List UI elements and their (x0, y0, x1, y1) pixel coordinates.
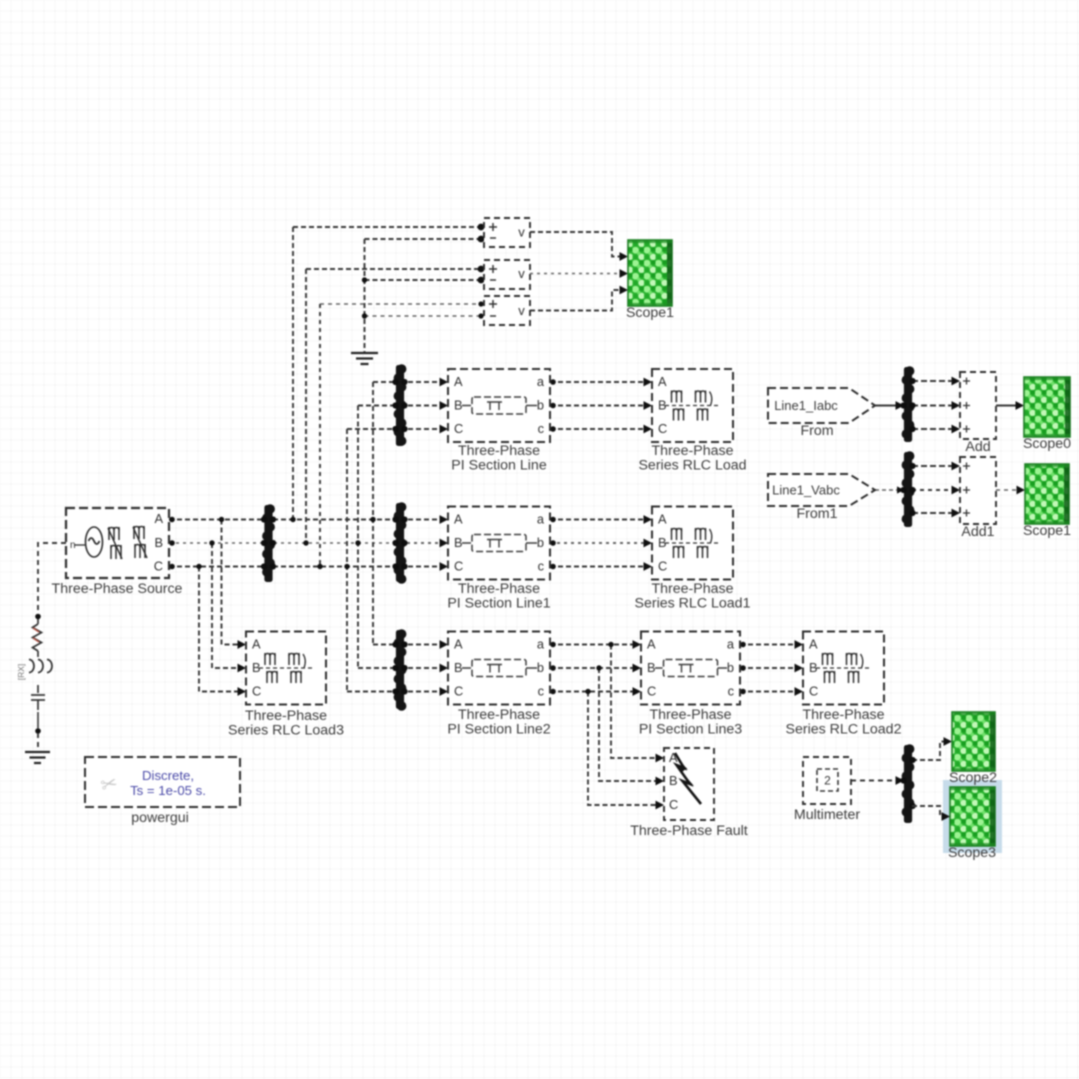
svg-text:v: v (518, 225, 525, 240)
node junction fault C tap (585, 689, 590, 694)
node demux out node a (910, 757, 916, 763)
scope block Scope1 top (628, 240, 672, 306)
multimeter block (803, 757, 851, 804)
wire From to demux (875, 405, 901, 407)
svg-text:A: A (647, 637, 656, 652)
node demux out node b (910, 803, 916, 809)
wire Load3 A drop (222, 520, 245, 645)
node VM2 plus input node (478, 266, 485, 273)
svg-text:B: B (454, 398, 463, 413)
svg-text:a: a (537, 512, 545, 527)
node VM3 minus input node (478, 313, 483, 318)
svg-text:A: A (154, 511, 163, 526)
wire demux to Scope2 (912, 742, 949, 761)
series RLC branch (neutral grounding) (29, 619, 52, 710)
wire row3 PI Section Line2 to Line3 port 1 (550, 667, 638, 669)
svg-text:C: C (154, 559, 163, 574)
wire phase B to VM2 plus (306, 268, 484, 270)
wire row2 bus to PI Section Line1 port 1 (400, 542, 445, 544)
bus B4 (row3) (bus bar) (392, 629, 407, 711)
node row3 PI2 out node 0 (550, 642, 556, 648)
wire fault A drop (611, 645, 661, 759)
wire row3 B feed (358, 667, 400, 669)
node neutral node bottom (35, 728, 41, 734)
node row2 PI out node 0 (550, 517, 556, 523)
node VM1 plus input node (478, 224, 485, 231)
node VM1 minus input node (478, 236, 485, 243)
node junction riser A on phase A (370, 517, 375, 522)
wire row1 A feed (373, 381, 400, 383)
node junction Load3 B tap (209, 540, 214, 545)
wire VM3 output to Scope1 in3 (530, 290, 626, 311)
node junction Load3 C tap (196, 564, 201, 569)
wire phase A line (169, 519, 400, 521)
svg-text:c: c (538, 421, 545, 436)
node row2 PI out node 2 (550, 564, 556, 570)
node junction fault B tap (596, 665, 601, 670)
wire demux to Add in2 (912, 405, 957, 407)
svg-text:B: B (647, 660, 656, 675)
svg-text:PI Section Line3: PI Section Line3 (639, 722, 742, 738)
svg-text:B: B (154, 535, 163, 550)
node junction riser C on phase C (344, 564, 349, 569)
svg-text:b: b (537, 660, 544, 675)
node row3 PI3 out node 2 (740, 689, 746, 695)
svg-text:A: A (454, 512, 463, 527)
voltage measurement U2 (484, 260, 530, 289)
node junction riser B on phase B (355, 540, 360, 545)
scope block Scope2 (952, 712, 995, 771)
wire row3 bus to PI Section Line2 port 2 (400, 691, 445, 693)
wire demux to Scope3 (912, 806, 947, 817)
bus B3 (row2) (bus bar) (392, 502, 407, 584)
svg-text:b: b (727, 660, 734, 675)
svg-text:C: C (454, 684, 463, 699)
scope block Scope3 (943, 780, 1002, 853)
wire VM2 plus vertical tap (305, 269, 307, 543)
wire Add to Scope0 (996, 405, 1021, 407)
svg-text:Discrete,: Discrete, (142, 768, 194, 783)
three-phase series RLC load (652, 369, 733, 442)
svg-text:b: b (537, 535, 544, 550)
wire row1 bus to PI Section Line port 0 (400, 381, 445, 383)
three-phase PI section line2 (448, 632, 550, 705)
wire row3 PI Section Line2 to Line3 port 2 (550, 691, 638, 693)
svg-text:A: A (252, 637, 261, 652)
scope block Scope0 (1024, 377, 1070, 437)
svg-text:A: A (454, 374, 463, 389)
three-phase source icon (74, 526, 147, 559)
node junction Load3 A tap (219, 517, 224, 522)
wire VM1 output to Scope1 in1 (530, 232, 626, 257)
wire row1 bus to PI Section Line port 1 (400, 405, 445, 407)
wire VM3 plus vertical tap (319, 304, 321, 567)
wire demux to Add in1 (912, 380, 957, 382)
node ground net junction at VM3 minus (362, 313, 367, 318)
svg-text:B: B (454, 660, 463, 675)
svg-text:c: c (538, 684, 545, 699)
From tag Line1_Iabc (768, 388, 875, 423)
svg-text:powergui: powergui (131, 810, 189, 826)
svg-text:Scope2: Scope2 (949, 770, 997, 786)
wire row2 PI Section Line1 to RLC Load1 port 1 (550, 542, 649, 544)
wire row2 PI Section Line1 to RLC Load1 port 2 (550, 566, 649, 568)
svg-text:v: v (518, 303, 525, 318)
svg-text:Ts = 1e-05 s.: Ts = 1e-05 s. (130, 783, 206, 798)
svg-text:C: C (658, 421, 667, 436)
wire row3 PI Section Line3 to RLC Load2 port 1 (740, 667, 800, 669)
wire row3 A feed (373, 644, 400, 646)
wire phase C riser x347 (346, 429, 348, 692)
svg-text:[RX]: [RX] (16, 664, 26, 681)
ground (measurement reference) (351, 353, 378, 364)
svg-text:Line1_Vabc: Line1_Vabc (772, 483, 840, 498)
three-phase fault block (664, 748, 714, 820)
svg-text:C: C (809, 684, 818, 699)
svg-text:PI Section Line2: PI Section Line2 (447, 722, 550, 738)
three-phase series RLC load3 (246, 632, 326, 705)
wire phase A riser x373 (372, 382, 374, 645)
scope block Scope1 right (1025, 464, 1069, 524)
svg-text:2: 2 (824, 774, 831, 788)
svg-text:C: C (454, 559, 463, 574)
node junction fault A tap (608, 642, 613, 647)
ground (source neutral) (25, 752, 50, 763)
wire Load3 C drop (199, 567, 244, 692)
svg-text:Three-Phase Source: Three-Phase Source (52, 581, 183, 597)
node source port B node (169, 540, 175, 546)
node row2 PI out node 1 (550, 540, 556, 546)
svg-text:a: a (727, 637, 735, 652)
node row3 PI2 out node 2 (550, 689, 556, 695)
wire VM1 minus wire (365, 238, 485, 240)
svg-text:Series RLC Load1: Series RLC Load1 (635, 596, 751, 612)
wire row1 PI Section Line to RLC Load port 0 (550, 381, 649, 383)
node row3 PI2 out node 1 (550, 665, 556, 671)
svg-text:Add: Add (965, 439, 990, 455)
wire demux1 to Add1 in2 (912, 489, 957, 491)
wire phase C line (169, 566, 400, 568)
svg-text:C: C (454, 421, 463, 436)
bus B1 (bus bar) (261, 504, 276, 582)
three-phase series RLC load2 (803, 632, 884, 705)
svg-text:Scope0: Scope0 (1023, 436, 1071, 452)
svg-text:b: b (537, 398, 544, 413)
node neutral node top (35, 614, 41, 620)
wire source neutral wire (38, 543, 66, 614)
RLC load icon (665, 391, 721, 421)
add1 block (960, 457, 996, 524)
wire demux to Add in3 (912, 428, 957, 430)
wire demux1 to Add1 in1 (912, 465, 957, 467)
node row1 PI out node 1 (550, 403, 556, 409)
svg-text:c: c (538, 559, 545, 574)
powergui block (85, 757, 240, 807)
node ground net junction at VM2 minus (362, 277, 367, 282)
three-phase series RLC load1 (652, 507, 733, 580)
node row3 PI3 out node 0 (740, 642, 746, 648)
svg-text:A: A (658, 374, 667, 389)
wire VM2 minus wire (365, 279, 485, 281)
wire row1 PI Section Line to RLC Load port 1 (550, 405, 649, 407)
svg-text:a: a (537, 637, 545, 652)
wire Load3 B drop (212, 543, 244, 668)
wire phase A to VM1 plus (293, 226, 484, 228)
wire row3 PI Section Line2 to Line3 port 0 (550, 644, 638, 646)
node junction VM1 tap (290, 517, 295, 522)
svg-text:From: From (800, 423, 833, 439)
svg-text:Series RLC Load2: Series RLC Load2 (786, 722, 902, 738)
From tag Line1_Vabc (768, 474, 875, 506)
RLC load icon (259, 653, 314, 683)
svg-text:PI Section Line: PI Section Line (451, 458, 547, 474)
wire phase B line (169, 542, 400, 544)
demux D1 (bus bar) (900, 366, 915, 442)
add block (960, 372, 996, 439)
svg-text:Line1_Iabc: Line1_Iabc (774, 398, 838, 413)
svg-text:C: C (252, 684, 261, 699)
svg-text:C: C (669, 797, 678, 812)
node VM2 minus input node (478, 277, 485, 284)
node source port C node (169, 564, 175, 570)
svg-text:B: B (669, 773, 678, 788)
svg-text:B: B (454, 535, 463, 550)
three-phase PI section line3 (641, 632, 740, 705)
wire demux1 to Add1 in3 (912, 512, 957, 514)
three-phase source block (66, 508, 169, 578)
svg-text:Add1: Add1 (961, 524, 994, 540)
voltage measurement U3 (484, 296, 530, 325)
wire ground net vertical (364, 239, 366, 352)
wire branch to ground (37, 712, 39, 729)
wire branch ground lead (37, 733, 39, 751)
wire row1 PI Section Line to RLC Load port 2 (550, 428, 649, 430)
demux D3 (bus bar) (900, 744, 915, 823)
wire From1 to demux1 (875, 489, 901, 491)
wire row2 bus to PI Section Line1 port 2 (400, 566, 445, 568)
RLC load icon (816, 653, 872, 683)
demux D2 (bus bar) (900, 451, 915, 527)
svg-text:Scope1: Scope1 (1023, 523, 1071, 539)
wire VM2 output to Scope1 in2 (530, 273, 626, 275)
svg-text:Multimeter: Multimeter (794, 807, 860, 823)
wire row3 PI Section Line3 to RLC Load2 port 0 (740, 644, 800, 646)
wire phase C to VM3 plus (320, 303, 484, 305)
svg-text:A: A (809, 637, 818, 652)
svg-text:Scope1: Scope1 (626, 305, 674, 321)
node source port A node (169, 517, 175, 523)
wire row1 C feed (347, 428, 400, 430)
wire Multimeter to demux (851, 780, 901, 782)
node junction VM3 tap (317, 564, 322, 569)
node VM3 plus input node (478, 301, 483, 306)
svg-text:From1: From1 (797, 506, 838, 522)
wire row3 C feed (347, 691, 400, 693)
node row3 PI3 out node 1 (740, 665, 746, 671)
wire row3 bus to PI Section Line2 port 1 (400, 667, 445, 669)
lightning bolt icon (675, 753, 701, 804)
svg-text:n: n (70, 540, 76, 551)
wire VM3 minus wire (365, 315, 485, 317)
three-phase PI section line1 (448, 507, 550, 580)
RLC load icon (665, 528, 721, 558)
svg-text:Series RLC Load3: Series RLC Load3 (228, 723, 344, 739)
node row1 PI out node 0 (550, 379, 556, 385)
wire row3 PI Section Line3 to RLC Load2 port 2 (740, 691, 800, 693)
node row1 PI out node 2 (550, 426, 556, 432)
wire row3 bus to PI Section Line2 port 0 (400, 644, 445, 646)
wire row2 bus to PI Section Line1 port 0 (400, 519, 445, 521)
wire fault C drop (588, 692, 661, 806)
wire row2 PI Section Line1 to RLC Load1 port 0 (550, 519, 649, 521)
svg-text:C: C (647, 684, 656, 699)
svg-text:a: a (537, 374, 545, 389)
bus B2 (row1) (bus bar) (392, 364, 407, 446)
svg-text:C: C (658, 559, 667, 574)
wire row1 bus to PI Section Line port 2 (400, 428, 445, 430)
wire fault B drop (599, 668, 661, 781)
svg-text:v: v (518, 266, 525, 281)
wire phase B riser x358 (357, 406, 359, 669)
wire row1 B feed (358, 405, 400, 407)
svg-text:Scope3: Scope3 (948, 845, 996, 861)
svg-text:c: c (728, 684, 735, 699)
wire Add1 to Scope1r (996, 489, 1022, 491)
node junction VM2 tap (303, 540, 308, 545)
voltage measurement U1 (484, 218, 530, 247)
wire VM1 plus vertical tap (292, 227, 294, 520)
svg-text:Series RLC Load: Series RLC Load (638, 458, 746, 474)
svg-text:PI Section Line1: PI Section Line1 (447, 596, 550, 612)
svg-text:Three-Phase Fault: Three-Phase Fault (630, 823, 748, 839)
svg-text:A: A (658, 512, 667, 527)
svg-text:A: A (454, 637, 463, 652)
three-phase PI section line (448, 369, 550, 442)
